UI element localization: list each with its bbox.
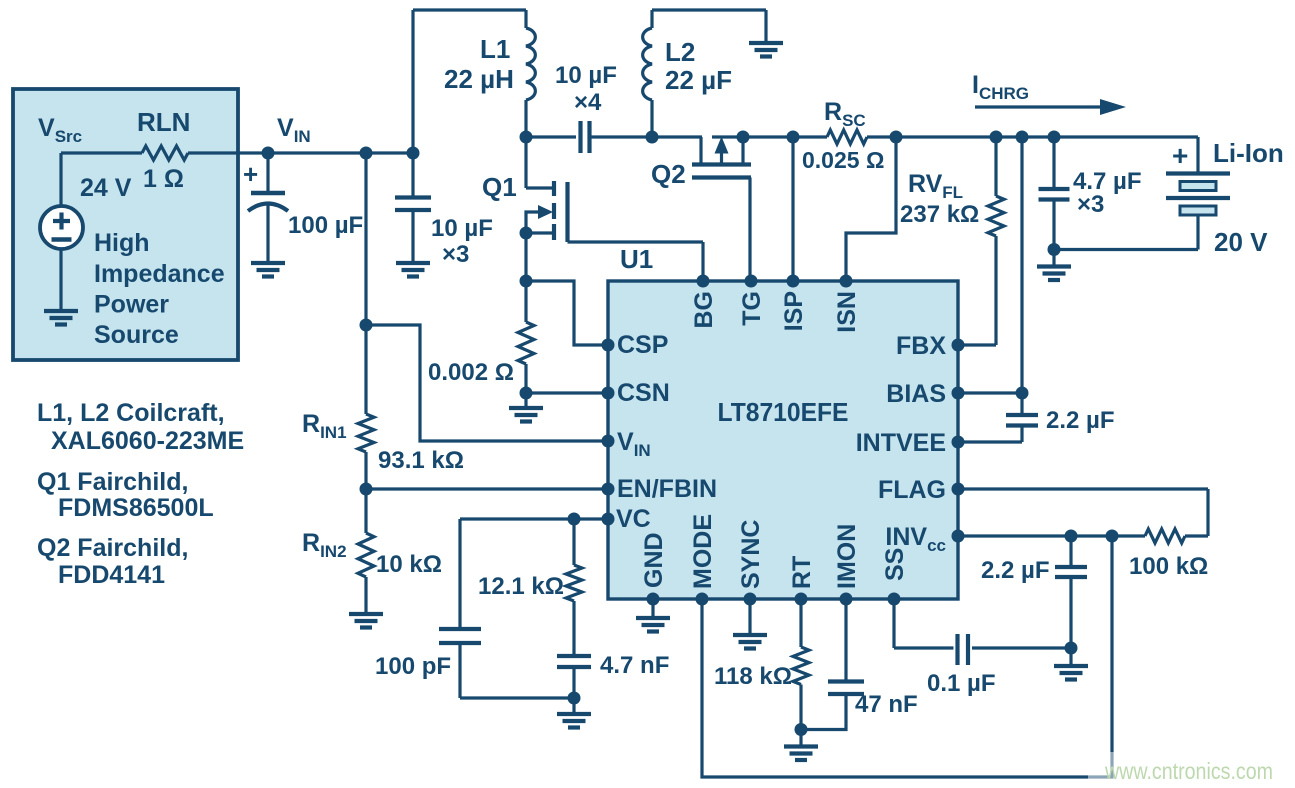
pin VC [602, 505, 651, 533]
ground L2 top [749, 10, 783, 57]
label U1 [620, 244, 653, 274]
svg-text:2.2 µF: 2.2 µF [981, 557, 1050, 584]
svg-text:Impedance: Impedance [94, 260, 225, 288]
svg-text:10 kΩ: 10 kΩ [376, 551, 442, 578]
pin RT [788, 556, 816, 606]
label 4.7uF x3 [1073, 168, 1142, 218]
wire Q1 gate to BG [568, 242, 704, 281]
pin BG [690, 275, 718, 329]
node RT junction [795, 723, 808, 736]
wire Q2 drain [712, 137, 743, 163]
wire EN/FBIN [366, 487, 608, 490]
svg-text:0.025 Ω: 0.025 Ω [802, 147, 884, 173]
label 0.002 [428, 359, 514, 386]
pin ISP [780, 275, 808, 332]
label High Impedance Power Source [94, 229, 225, 349]
svg-text:100 kΩ: 100 kΩ [1129, 553, 1208, 580]
node RVFL tap [990, 131, 1003, 144]
pin SYNC [737, 520, 765, 606]
svg-text:BG: BG [690, 291, 718, 329]
ground VC network [557, 698, 591, 728]
resistor RIN1 93.1k [358, 325, 374, 489]
svg-text:IMON: IMON [833, 524, 861, 589]
wire L2 top to ground [652, 8, 766, 11]
svg-text:CSN: CSN [617, 379, 670, 407]
wire ISP [791, 137, 794, 281]
inductor L2 22uF [643, 10, 652, 137]
svg-text:SYNC: SYNC [737, 520, 765, 589]
label 2.2uF top [1046, 407, 1115, 434]
resistor RLN 1 Ohm [142, 146, 188, 160]
capacitor 2.2uF bottom [1055, 536, 1087, 648]
pin ISN [833, 275, 861, 333]
node VC ground junction [568, 692, 581, 705]
label 10uF x3 [431, 215, 493, 268]
IC U1 LT8710EFE body [608, 281, 958, 599]
node VIN rail right [407, 147, 420, 160]
node 4.7uF tap [1048, 131, 1061, 144]
node battery bottom [1048, 243, 1061, 256]
wire top frame left [413, 10, 526, 153]
label 100k [1129, 553, 1208, 580]
svg-text:Source: Source [94, 321, 179, 349]
ground 10uF x3 [396, 263, 430, 277]
pin VIN [602, 428, 651, 460]
resistor 100k [1145, 529, 1208, 543]
svg-text:RT: RT [788, 556, 816, 589]
label 0.025 [802, 147, 884, 173]
svg-text:×3: ×3 [1077, 191, 1104, 218]
wire V_Src to RLN [61, 153, 142, 207]
high impedance power source box [13, 89, 238, 360]
transistor Q2 channel [692, 162, 751, 166]
inductor L1 22uH [526, 10, 535, 137]
label Q1 [482, 172, 517, 202]
node VIN [262, 147, 275, 160]
wire RSC to battery [867, 135, 1198, 138]
pin BIAS [886, 380, 964, 408]
label 0.1uF [927, 670, 996, 697]
node RIN1 top [360, 319, 373, 332]
svg-text:Q2 Fairchild,: Q2 Fairchild, [37, 534, 188, 562]
svg-text:L1: L1 [480, 34, 510, 64]
watermark [1088, 752, 1295, 788]
label 100pF [375, 653, 451, 680]
transistor Q1 source [526, 231, 552, 234]
label 10k [376, 551, 442, 578]
node VC junction [568, 513, 581, 526]
svg-text:118 kΩ: 118 kΩ [714, 663, 792, 690]
label L1 [444, 34, 514, 94]
svg-text:CSP: CSP [617, 331, 668, 359]
node Q1 source [520, 227, 533, 240]
node INVcc wire tap [1106, 530, 1119, 543]
svg-text:INTVEE: INTVEE [856, 429, 946, 457]
label RVFL [908, 170, 963, 202]
svg-text:RLN: RLN [137, 107, 190, 137]
resistor 118k [793, 599, 809, 730]
label 100uF [288, 212, 363, 239]
voltage source V_Src 24 V [40, 206, 83, 249]
label RSC [824, 98, 866, 130]
resistor RVFL 237k [988, 196, 1004, 236]
svg-text:+: + [243, 159, 258, 189]
svg-text:LT8710EFE: LT8710EFE [718, 397, 849, 427]
capacitor 100pF [439, 519, 574, 698]
svg-text:XAL6060-223ME: XAL6060-223ME [51, 427, 244, 455]
svg-text:FBX: FBX [896, 332, 946, 360]
svg-text:4.7 nF: 4.7 nF [600, 652, 669, 679]
capacitor 4.7nF [557, 601, 591, 698]
label 24 V [80, 174, 132, 202]
node ISN tap [890, 131, 903, 144]
svg-text:Q1: Q1 [482, 172, 517, 202]
ground SYNC [733, 599, 767, 649]
svg-text:VC: VC [616, 505, 651, 533]
ground 100uF [251, 263, 285, 277]
pin EN/FBIN [602, 475, 718, 503]
battery Li-Ion [1054, 137, 1230, 250]
label Li-Ion [1213, 138, 1284, 168]
svg-text:Q2: Q2 [651, 159, 686, 189]
label 4.7nF [600, 652, 669, 679]
label L2 [665, 37, 732, 95]
note L1 L2 Coilcraft [37, 399, 244, 455]
node INVcc cap tap [1065, 530, 1078, 543]
label 47nF [855, 691, 918, 718]
pin IMON [833, 524, 861, 606]
label 1 Ohm [143, 165, 184, 193]
pin SS [881, 548, 909, 606]
resistor 12.1k [566, 519, 582, 601]
wire INTVEE [958, 440, 1022, 443]
capacitor 0.1uF [894, 599, 1071, 665]
svg-text:EN/FBIN: EN/FBIN [617, 475, 717, 503]
node ISP tap [787, 131, 800, 144]
svg-text:20 V: 20 V [1214, 227, 1268, 257]
svg-text:U1: U1 [620, 244, 653, 274]
wire CSN [526, 391, 608, 394]
label 93.1k [378, 447, 464, 474]
pin FBX [896, 332, 965, 360]
ground source [44, 249, 78, 325]
label 118k [714, 663, 792, 690]
transistor Q2 body arrow [715, 137, 729, 165]
svg-text:FLAG: FLAG [878, 476, 946, 504]
note Q2 Fairchild [37, 534, 188, 589]
wire INVcc [958, 534, 1145, 537]
svg-text:24 V: 24 V [80, 174, 132, 202]
svg-text:L2: L2 [665, 37, 695, 67]
node BIAS junction [1016, 387, 1029, 400]
wire FLAG [958, 489, 1208, 536]
ground RIN2 [349, 577, 383, 628]
node CSP junction [520, 275, 533, 288]
wire L1 to cap [526, 135, 576, 138]
capacitor 2.2uF top [1006, 393, 1038, 442]
node VIN rail mid [360, 147, 373, 160]
ground CSN [509, 393, 543, 422]
svg-text:0.002 Ω: 0.002 Ω [428, 359, 514, 386]
svg-text:22 µF: 22 µF [665, 65, 732, 95]
wire BIAS tap down [1020, 137, 1023, 393]
svg-text:22 µH: 22 µH [444, 64, 514, 94]
svg-text:FDD4141: FDD4141 [58, 561, 165, 589]
svg-text:Li-Ion: Li-Ion [1213, 138, 1284, 168]
label 20V [1214, 227, 1268, 257]
pin INVcc [885, 523, 964, 555]
label LT8710EFE [718, 397, 849, 427]
svg-text:SS: SS [881, 548, 909, 581]
svg-text:100 pF: 100 pF [375, 653, 451, 680]
label 2.2uF bottom [981, 557, 1050, 584]
ground SS network [1054, 648, 1088, 680]
resistor 0.002 Ohm [518, 281, 534, 393]
wire BIAS pin [958, 391, 1022, 394]
svg-text:ISP: ISP [780, 291, 808, 331]
ground GND pin [636, 599, 670, 632]
capacitor 47nF [801, 599, 864, 730]
pin INTVEE [856, 429, 965, 457]
pin MODE [689, 514, 717, 606]
node L1 bottom [520, 131, 533, 144]
wire VIN rail to RIN1 [364, 153, 367, 325]
node L2 bottom [646, 131, 659, 144]
pin FLAG [878, 476, 965, 504]
transistor Q2 gate [692, 178, 751, 282]
wire RVFL to FBX [958, 236, 996, 345]
capacitor 10uF x4 [581, 121, 653, 153]
svg-text:www.cntronics.com: www.cntronics.com [1104, 758, 1273, 784]
svg-text:FDMS86500L: FDMS86500L [58, 494, 214, 522]
note Q1 Fairchild [37, 468, 214, 522]
wire VC [460, 517, 608, 520]
wire MODE loop [702, 536, 1112, 777]
label 12.1k [478, 573, 564, 600]
svg-text:93.1 kΩ: 93.1 kΩ [378, 447, 464, 474]
svg-text:12.1 kΩ: 12.1 kΩ [478, 573, 564, 600]
label RIN1 [302, 410, 347, 442]
label ICHRG [972, 71, 1029, 103]
label battery plus [1172, 140, 1188, 171]
svg-text:237 kΩ: 237 kΩ [900, 201, 979, 228]
svg-text:100 µF: 100 µF [288, 212, 363, 239]
ground RT [784, 730, 818, 761]
svg-text:GND: GND [640, 532, 668, 588]
wire RLN to VIN rail [188, 151, 413, 154]
label V_Src [38, 114, 82, 146]
ground 4.7uF [1037, 250, 1071, 281]
wire L2 to Q2 [652, 137, 702, 163]
label RLN [137, 107, 190, 137]
node EN junction [360, 483, 373, 496]
pin CSN [602, 379, 670, 407]
wire L1 junction to Q1 drain [526, 137, 552, 188]
resistor RSC 0.025 [827, 130, 867, 144]
pin CSP [602, 331, 669, 359]
transistor Q1 body arrow [526, 205, 553, 233]
svg-text:Q1 Fairchild,: Q1 Fairchild, [37, 468, 188, 496]
svg-text:0.1 µF: 0.1 µF [927, 670, 996, 697]
svg-text:TG: TG [738, 291, 766, 326]
wire VIN pin [366, 325, 608, 441]
svg-text:BIAS: BIAS [886, 380, 946, 408]
capacitor 100uF [243, 153, 288, 262]
svg-text:2.2 µF: 2.2 µF [1046, 407, 1115, 434]
label RIN2 [302, 529, 347, 561]
svg-text:ISN: ISN [833, 291, 861, 333]
label 237k [900, 201, 979, 228]
svg-text:+: + [1172, 140, 1188, 171]
svg-text:MODE: MODE [689, 514, 717, 589]
pin GND [640, 532, 668, 605]
node Q2 drain [737, 131, 750, 144]
capacitor 10uF x3 [395, 153, 431, 262]
node SS ground junction [1065, 642, 1078, 655]
node BIAS tap [1016, 131, 1029, 144]
wire Q1 source down [524, 233, 527, 281]
wire CSP [526, 281, 608, 345]
transistor Q1 gate [565, 182, 569, 242]
label 10uF x4 [555, 62, 617, 116]
svg-text:10 µF: 10 µF [431, 215, 493, 242]
transistor Q1 channel [552, 181, 556, 240]
label Q2 [651, 159, 686, 189]
svg-text:Power: Power [94, 291, 169, 319]
wire ISN [846, 137, 896, 281]
svg-text:L1, L2 Coilcraft,: L1, L2 Coilcraft, [37, 399, 225, 427]
svg-text:10 µF: 10 µF [555, 62, 617, 89]
wire RVFL top [994, 137, 997, 196]
label VIN [277, 114, 311, 146]
arrow ICHRG [975, 99, 1126, 115]
node CSN junction [520, 387, 533, 400]
svg-text:High: High [94, 229, 150, 257]
capacitor 4.7uF x3 [1039, 137, 1070, 250]
wire Q2 to RSC [743, 135, 827, 138]
svg-text:×3: ×3 [442, 241, 469, 268]
svg-text:47 nF: 47 nF [855, 691, 918, 718]
pin TG [738, 275, 766, 326]
svg-text:×4: ×4 [574, 89, 602, 116]
svg-text:1 Ω: 1 Ω [143, 165, 184, 193]
resistor RIN2 10k [358, 489, 374, 577]
